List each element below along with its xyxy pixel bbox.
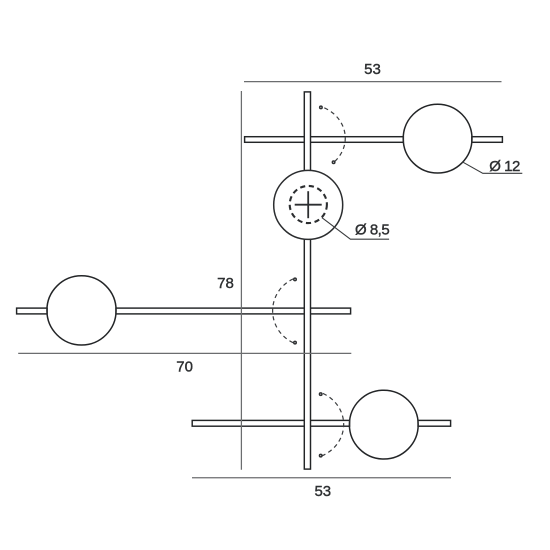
svg-text:Ø 8,5: Ø 8,5: [355, 222, 389, 239]
svg-text:53: 53: [364, 61, 381, 78]
svg-text:Ø 12: Ø 12: [489, 158, 520, 175]
svg-text:70: 70: [176, 359, 193, 376]
svg-text:78: 78: [217, 275, 234, 292]
svg-text:53: 53: [314, 483, 331, 500]
